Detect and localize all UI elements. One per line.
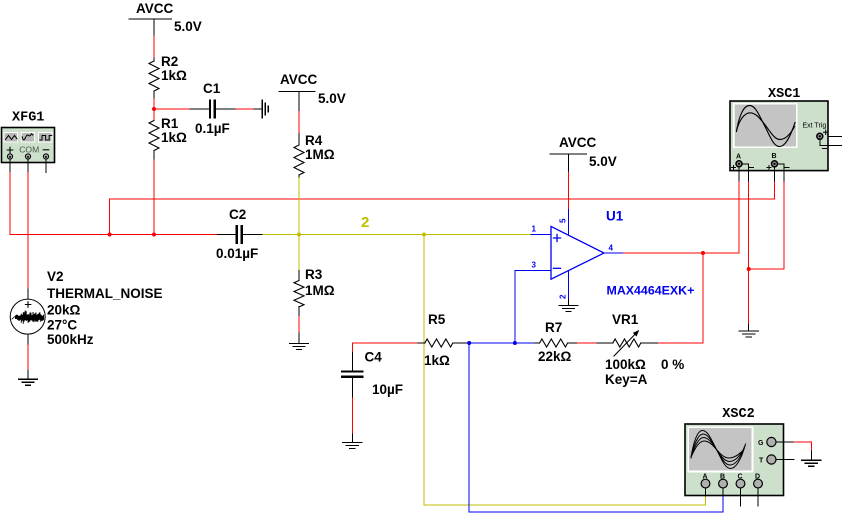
wire VR1 left stub (597, 342, 613, 344)
wire G ground stub (810, 451, 812, 460)
wire C4 ground stub (351, 434, 353, 443)
wire B minus vertical (783, 180, 785, 269)
capacitor C2 (216, 207, 258, 261)
wire blue bus (469, 342, 534, 344)
wire R7 left stub (534, 342, 539, 344)
svg-text:T: T (759, 458, 764, 465)
wire C4 to R5 red (352, 343, 418, 353)
node junction A minus B minus (747, 267, 751, 271)
svg-text:1kΩ: 1kΩ (161, 130, 187, 145)
wire R7 right stub (568, 342, 577, 344)
wire AVCC2 stem (298, 91, 300, 111)
svg-text:1kΩ: 1kΩ (424, 353, 450, 368)
svg-text:Ext Trig: Ext Trig (803, 123, 827, 130)
wire AVCC2 to R4 (298, 112, 300, 134)
wire XSC2 B stub (722, 488, 724, 496)
svg-text:22kΩ: 22kΩ (538, 349, 572, 364)
svg-text:2: 2 (559, 294, 568, 299)
wire pin2 ground stub (568, 299, 570, 306)
wire V2 top stub (27, 289, 29, 299)
svg-text:3: 3 (532, 261, 537, 270)
wire scope ground down (748, 269, 750, 324)
svg-text:0.01µF: 0.01µF (216, 246, 258, 261)
svg-text:B: B (772, 153, 777, 160)
op-amp U1 (532, 209, 695, 300)
wire opamp pin1 stub (531, 234, 551, 236)
wire VR1 to output node (659, 253, 704, 343)
wire R1 to bus (153, 160, 155, 235)
svg-text:G: G (758, 440, 764, 447)
wire opamp pin3 stub (515, 269, 551, 271)
svg-text:5: 5 (559, 218, 568, 223)
wire R3 ground stub (298, 333, 300, 344)
wire scope ground stub (748, 324, 750, 331)
svg-text:0 %: 0 % (661, 357, 684, 372)
svg-text:4: 4 (609, 244, 614, 253)
power AVCC2 (279, 72, 346, 106)
node junction bus left (108, 233, 112, 237)
wire C1 left stub (190, 108, 209, 110)
wire C1 right stub (216, 108, 237, 110)
wire V2 to ground (27, 345, 29, 371)
wire V2 bottom stub (27, 334, 29, 345)
svg-text:2: 2 (361, 214, 369, 231)
wire R3 to ground (298, 316, 300, 333)
wire AVCC1 stem (153, 19, 155, 36)
svg-text:C2: C2 (229, 207, 246, 222)
wire V2 ground stub (27, 371, 29, 380)
svg-text:R7: R7 (545, 320, 562, 335)
SECTION:INSTRUMENTS (2, 87, 842, 496)
wire R3 bottom stub (298, 307, 300, 317)
resistor R1 (149, 116, 187, 151)
wire R3 top stub (298, 271, 300, 281)
svg-text:R5: R5 (428, 312, 446, 327)
svg-text:500kHz: 500kHz (47, 332, 94, 347)
wire ext trig plus (823, 135, 842, 137)
wire R1 bottom stub (153, 151, 155, 161)
svg-text:1MΩ: 1MΩ (305, 283, 335, 298)
wire node to C1 (154, 108, 190, 110)
wire pin5 blue (568, 210, 570, 235)
ground R3 (290, 344, 309, 350)
wire R5 right stub (453, 342, 469, 344)
node junction blue R5 (467, 341, 471, 345)
svg-text:AVCC: AVCC (280, 72, 318, 87)
wire C4 top stub (351, 353, 353, 371)
svg-text:27°C: 27°C (47, 318, 77, 333)
wire blue down to XSC2 B (469, 343, 723, 512)
ground XSC1 channels (739, 331, 758, 337)
wire bus to C2 stub (218, 234, 236, 236)
svg-text:5.0V: 5.0V (589, 154, 617, 169)
wire red bus y=234.5 (10, 234, 218, 236)
svg-text:R3: R3 (305, 267, 323, 282)
svg-text:5.0V: 5.0V (174, 19, 202, 34)
svg-text:0.1µF: 0.1µF (195, 121, 230, 136)
wire B plus to long line (774, 180, 776, 199)
svg-text:AVCC: AVCC (136, 1, 174, 16)
wire pin2 blue (568, 272, 570, 300)
wire XFG1 minus stub (45, 163, 47, 173)
wire XSC2 C stub (740, 488, 742, 507)
svg-text:R1: R1 (161, 116, 179, 131)
svg-text:A: A (736, 154, 741, 161)
wire XFG1 COM pin stub (27, 163, 29, 173)
wire XFG1 COM to V2 (27, 173, 29, 290)
resistor R7 (538, 320, 572, 364)
wire AVCC3 to pin5 red (568, 172, 570, 210)
wire XSC2 G to ground (793, 442, 811, 451)
source V2 (10, 269, 162, 347)
wire R4 bottom stub (298, 175, 300, 178)
node junction blue pin3 (513, 341, 517, 345)
svg-text:AVCC: AVCC (559, 135, 597, 150)
instrument XSC2 (685, 407, 794, 496)
potentiometer VR1 (605, 312, 684, 387)
node junction R2 R1 C1 (152, 107, 156, 111)
svg-text:U1: U1 (606, 209, 624, 224)
svg-text:XFG1: XFG1 (12, 111, 44, 126)
wire R7 to VR1 (578, 342, 598, 344)
ground V2 (19, 379, 38, 385)
instrument XSC1 (730, 87, 842, 181)
wire VR1 right stub (642, 342, 659, 344)
wire yellow bus C2 to opamp (263, 234, 531, 236)
svg-text:R4: R4 (305, 133, 323, 148)
wire R4 to node2 to R3 yellow (298, 178, 300, 271)
wire R2 bottom stub (153, 91, 155, 99)
svg-text:20kΩ: 20kΩ (47, 303, 81, 318)
svg-text:1MΩ: 1MΩ (305, 147, 335, 162)
wire XSC1 A minus stub (742, 164, 749, 181)
wire R4 top stub (298, 134, 300, 145)
node junction bus R1 (152, 233, 156, 237)
node junction net2 R4 (297, 233, 301, 237)
wire XFG1 plus pin stub (9, 163, 11, 173)
wire C1 to ground (236, 108, 254, 110)
ground U1 pin2 (559, 306, 578, 312)
svg-text:MAX4464EXK+: MAX4464EXK+ (607, 284, 695, 298)
capacitor C4 (342, 350, 403, 398)
wire XSC2 G stub (777, 441, 793, 443)
wire XFG1 plus to bus (9, 173, 11, 235)
capacitor C1 (195, 81, 230, 136)
power AVCC1 (129, 1, 202, 34)
svg-text:XSC2: XSC2 (722, 407, 754, 422)
wire C2 right stub (243, 234, 263, 236)
svg-text:1: 1 (532, 225, 537, 234)
svg-text:Key=A: Key=A (605, 372, 648, 387)
wire R2 top stub (153, 58, 155, 61)
wire XSC2 T stub (777, 459, 794, 461)
resistor R4 (294, 133, 335, 175)
resistor R5 (424, 312, 453, 368)
wire XSC1 B plus stub (774, 167, 776, 180)
svg-text:10µF: 10µF (372, 382, 403, 397)
svg-text:R2: R2 (161, 54, 178, 69)
wire XSC1 A minus down (748, 180, 750, 269)
wire XSC1 A plus stub (738, 167, 740, 180)
wire yellow down to XSC2 A (424, 235, 706, 506)
wire XSC2 D stub (757, 488, 759, 507)
svg-text:C4: C4 (365, 350, 383, 365)
wire AVCC1 to R2 (153, 36, 155, 58)
svg-text:THERMAL_NOISE: THERMAL_NOISE (47, 286, 163, 301)
wire R5 left stub (418, 342, 425, 344)
wire corner up from bus (110, 199, 775, 235)
wire AVCC3 stem (568, 154, 570, 172)
wire R2 to node (153, 99, 155, 121)
wire opamp pin4 stub (604, 252, 624, 254)
wire A minus to B minus (749, 268, 785, 270)
svg-text:COM: COM (19, 145, 39, 155)
svg-text:V2: V2 (47, 269, 64, 284)
wire ext trig minus (820, 140, 842, 146)
wire pin3 down to blue bus (514, 270, 516, 343)
svg-text:1kΩ: 1kΩ (161, 68, 187, 83)
wire C4 to ground (351, 398, 353, 434)
ground XSC2 G (802, 460, 821, 466)
svg-text:C1: C1 (203, 81, 221, 96)
wire XSC2 A stub (705, 488, 707, 496)
svg-text:XSC1: XSC1 (768, 87, 800, 102)
node junction net2 down (422, 233, 426, 237)
wire XSC1 B minus stub (778, 164, 785, 181)
svg-text:5.0V: 5.0V (318, 91, 346, 106)
ground C4 (343, 443, 362, 449)
power AVCC3 (550, 135, 617, 169)
wire C1 ground stub (254, 108, 262, 110)
wire C4 bottom stub (351, 378, 353, 398)
resistor R3 (294, 267, 335, 307)
svg-text:100kΩ: 100kΩ (605, 357, 646, 372)
ground C1 rotated (262, 100, 268, 118)
wire output to XSC1 A (624, 180, 739, 253)
svg-text:VR1: VR1 (612, 312, 639, 327)
resistor R2 (149, 54, 187, 91)
node junction output (701, 251, 705, 255)
instrument XFG1 (2, 111, 55, 163)
